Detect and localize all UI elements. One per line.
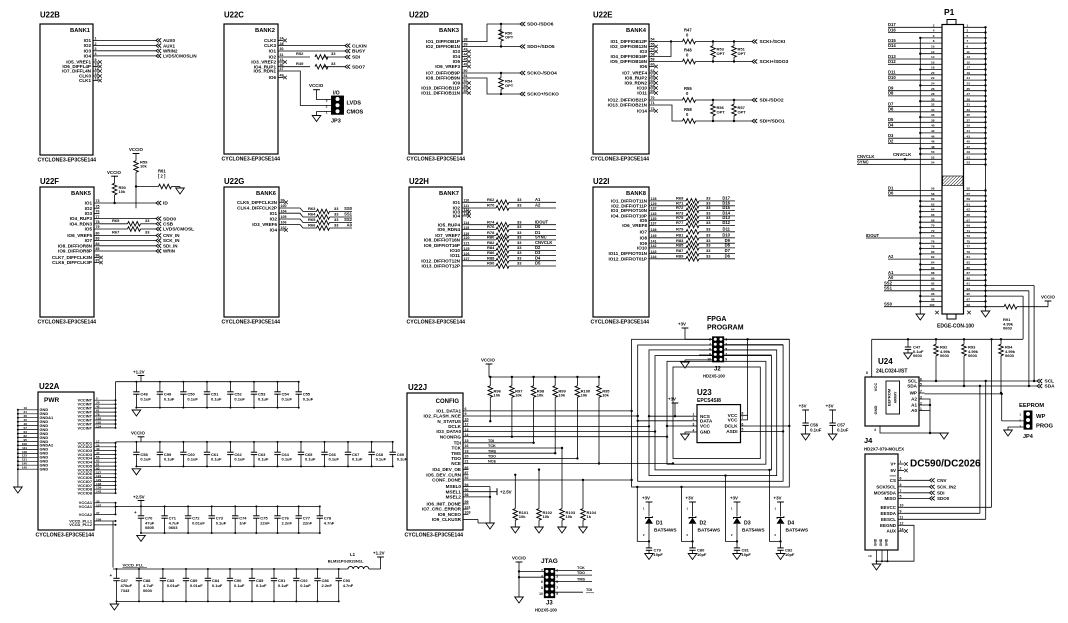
svg-text:R85: R85	[676, 243, 684, 248]
wire rail down to U24 VCC pin	[871, 339, 873, 377]
svg-text:77: 77	[96, 215, 100, 219]
svg-text:CLK3: CLK3	[264, 43, 276, 48]
svg-text:5: 5	[900, 495, 902, 499]
svg-text:0.1uF: 0.1uF	[211, 457, 222, 462]
svg-text:19: 19	[967, 71, 971, 75]
svg-text:66: 66	[931, 213, 935, 217]
U22A pin GND 108	[18, 444, 38, 446]
resistor R51 OPT	[733, 42, 735, 46]
svg-text:U22B: U22B	[40, 11, 60, 20]
svg-text:SDO0: SDO0	[937, 496, 950, 501]
P1 left ground bus	[919, 38, 921, 313]
svg-text:57: 57	[967, 192, 971, 196]
capacitor C54 0.1uF	[277, 382, 279, 392]
svg-text:ARRAY: ARRAY	[894, 391, 898, 403]
svg-text:99: 99	[281, 199, 285, 203]
svg-text:7: 7	[556, 586, 558, 590]
svg-text:A2: A2	[888, 254, 894, 259]
svg-text:R62: R62	[487, 197, 495, 202]
svg-text:[ 2 ]: [ 2 ]	[158, 174, 166, 179]
svg-text:43: 43	[464, 48, 468, 52]
svg-text:7: 7	[900, 489, 902, 493]
svg-text:18: 18	[465, 449, 469, 453]
svg-text:4: 4	[541, 574, 543, 578]
U24 GND pin 4	[879, 426, 881, 431]
svg-text:SCK/SCL: SCK/SCL	[876, 484, 896, 489]
svg-text:134: 134	[96, 424, 101, 428]
svg-text:33: 33	[334, 223, 339, 228]
svg-text:A0: A0	[347, 223, 353, 228]
resistor R104 1k	[582, 480, 584, 509]
svg-text:SS1: SS1	[344, 212, 353, 217]
svg-text:60: 60	[651, 63, 655, 67]
svg-text:0.1uF: 0.1uF	[300, 583, 311, 588]
wire U22D SCKO+/SCKO	[468, 78, 521, 94]
svg-text:10: 10	[539, 592, 543, 596]
P1 pin row 12 (pins 24/23)	[920, 84, 942, 86]
svg-text:127: 127	[464, 257, 470, 261]
svg-text:IO10: IO10	[637, 246, 647, 251]
svg-text:24: 24	[280, 37, 284, 41]
svg-text:LVDS/CMOSLIN: LVDS/CMOSLIN	[163, 54, 197, 59]
ground R104	[579, 527, 588, 533]
svg-text:99: 99	[465, 500, 469, 504]
wire P1 VCC riser	[986, 295, 1024, 297]
svg-text:PWR: PWR	[44, 397, 59, 404]
svg-text:24LC024-I/ST: 24LC024-I/ST	[876, 369, 907, 375]
capacitor C85 0.1uF	[251, 569, 253, 578]
svg-text:D5: D5	[888, 117, 894, 122]
svg-text:CNVCLK: CNVCLK	[893, 152, 912, 157]
resistor R66 33 to A0	[285, 225, 317, 229]
capacitor C87 470uF	[116, 569, 118, 578]
svg-text:CLK1: CLK1	[79, 78, 91, 83]
svg-text:OPT: OPT	[717, 51, 726, 56]
svg-text:10pF: 10pF	[742, 552, 752, 557]
svg-text:84: 84	[931, 261, 935, 265]
svg-text:55: 55	[967, 187, 971, 191]
U22A pin GND 45	[18, 421, 38, 423]
svg-text:10: 10	[707, 357, 711, 361]
P1 pin row 3 (pins 6/5)	[920, 37, 942, 39]
svg-text:52: 52	[464, 79, 468, 83]
svg-text:64: 64	[931, 208, 935, 212]
ground JP4	[1004, 430, 1013, 436]
svg-text:SDO-/SDO6: SDO-/SDO6	[527, 22, 554, 28]
P1 pin row 10 (pins 20/19)	[888, 74, 942, 76]
net ID	[156, 201, 161, 205]
ground J2	[685, 359, 713, 361]
wire SDA drop to EESDA	[979, 386, 981, 513]
svg-text:87: 87	[967, 271, 971, 275]
svg-text:IO6_VREF8: IO6_VREF8	[622, 223, 647, 228]
svg-text:R64: R64	[308, 212, 316, 217]
U22A pin GND 63	[18, 433, 38, 435]
svg-text:87: 87	[465, 471, 469, 475]
svg-text:OPT: OPT	[717, 109, 726, 114]
resistor R63 33 to SS0	[285, 208, 317, 212]
P1 pin row 6 (pins 12/11)	[920, 53, 942, 55]
capacitor C53 0.1uF	[253, 382, 255, 392]
svg-text:31: 31	[967, 103, 971, 107]
resistor R64 33 to SS1	[285, 213, 317, 217]
ground U22A left	[14, 487, 23, 493]
P1 pin row 21 (pins 42/41)	[920, 132, 942, 134]
svg-text:4: 4	[95, 52, 97, 56]
svg-text:31: 31	[280, 53, 284, 57]
svg-text:90: 90	[931, 276, 935, 280]
svg-text:+3V: +3V	[774, 496, 782, 501]
svg-text:63: 63	[651, 69, 655, 73]
wire JP4 pin3 ground	[1008, 427, 1024, 430]
wire U22C CLKIN	[284, 45, 346, 47]
capacitor C92 0.1uF	[295, 569, 297, 578]
svg-text:1: 1	[326, 111, 328, 115]
svg-text:TDI: TDI	[586, 588, 592, 592]
svg-text:5: 5	[556, 580, 558, 584]
wire SS0 row to R91	[986, 306, 1005, 308]
svg-text:121: 121	[464, 242, 470, 246]
svg-text:0.1uF: 0.1uF	[211, 396, 222, 401]
wire WP to JP4 pin2	[925, 393, 1002, 395]
resistor R103 10k	[561, 448, 563, 509]
P1 pin row 19 (pins 38/37)	[888, 121, 942, 123]
svg-text:51: 51	[967, 155, 971, 159]
svg-text:JTAG: JTAG	[541, 558, 558, 565]
P1 pin row 41 (pins 82/81)	[888, 258, 942, 260]
svg-text:129: 129	[651, 202, 657, 206]
svg-text:D7: D7	[888, 101, 894, 106]
P1 pin row 25 (pins 50/49)	[920, 153, 942, 155]
svg-text:3: 3	[95, 47, 97, 51]
net CNV	[930, 478, 935, 482]
wire VCCIO to J3 pins	[518, 562, 520, 597]
capacitor C59 0.1uF	[159, 442, 161, 452]
P1 pin row 45 (pins 90/89)	[888, 279, 942, 281]
svg-text:SCK_IN: SCK_IN	[163, 238, 180, 243]
svg-text:DCLK: DCLK	[724, 424, 738, 429]
svg-text:30: 30	[280, 47, 284, 51]
capacitor C58 0.1uF	[135, 442, 137, 452]
U22A pin GND 21	[18, 413, 38, 415]
wire +1.2V rail	[116, 381, 299, 383]
svg-text:D17: D17	[888, 22, 896, 27]
U24 EEPROM ARRAY box	[886, 381, 900, 414]
svg-text:10k: 10k	[543, 514, 550, 519]
svg-text:45: 45	[967, 140, 971, 144]
capacitor C63 0.1uF	[253, 442, 255, 452]
net SCKI+/SDO3	[752, 60, 757, 64]
svg-text:11: 11	[900, 516, 904, 520]
svg-text:0.1uF: 0.1uF	[282, 396, 293, 401]
svg-text:BANK4: BANK4	[626, 28, 647, 34]
resistor R65 33 CSB	[100, 223, 128, 225]
svg-text:VCCIO: VCCIO	[131, 431, 145, 436]
wire U22F ID	[100, 202, 157, 204]
resistor R100 10k	[576, 377, 578, 386]
svg-text:7343: 7343	[121, 588, 131, 593]
svg-text:CYCLONE3-EP3C5E144: CYCLONE3-EP3C5E144	[407, 156, 466, 162]
ground MSEL	[486, 523, 495, 529]
svg-text:IDOUT: IDOUT	[866, 233, 879, 238]
wire U22C SDO7	[284, 66, 311, 68]
svg-text:CNV: CNV	[937, 478, 947, 483]
svg-text:10k: 10k	[140, 164, 147, 169]
svg-text:SDI-/SDO2: SDI-/SDO2	[760, 98, 784, 104]
svg-text:CMOS: CMOS	[347, 110, 364, 116]
capacitor C70 47uF	[140, 506, 142, 515]
svg-text:R49: R49	[296, 61, 304, 66]
svg-text:80: 80	[96, 232, 100, 236]
svg-text:9: 9	[465, 412, 467, 416]
svg-text:AUX: AUX	[886, 529, 896, 534]
svg-text:84: 84	[96, 242, 100, 246]
capacitor C51 0.1uF	[206, 382, 208, 392]
wire U22D SCKO-/SDO4	[468, 72, 521, 74]
wire J4 CNV	[904, 479, 930, 481]
svg-text:10pF: 10pF	[697, 552, 707, 557]
svg-text:37: 37	[967, 118, 971, 122]
capacitor C77 22nF	[298, 506, 300, 515]
svg-text:1: 1	[95, 37, 97, 41]
P1 hatch band	[943, 176, 963, 186]
svg-text:D2: D2	[888, 138, 894, 143]
P1 pin row 34 (pins 68/67)	[920, 221, 942, 223]
svg-text:U22G: U22G	[224, 177, 244, 186]
svg-text:12: 12	[95, 72, 99, 76]
svg-text:139: 139	[651, 234, 657, 238]
wire VCCINT bus	[115, 382, 117, 428]
svg-text:CONF_DONE: CONF_DONE	[432, 478, 461, 483]
svg-text:10k: 10k	[494, 393, 501, 398]
svg-text:8: 8	[933, 39, 935, 43]
svg-text:23: 23	[967, 82, 971, 86]
svg-text:33: 33	[517, 197, 522, 202]
svg-text:10k: 10k	[537, 393, 544, 398]
P1 pin row 16 (pins 32/31)	[888, 106, 942, 108]
svg-text:VCCIO: VCCIO	[309, 83, 324, 88]
resistor R61 [2]	[136, 186, 159, 188]
svg-text:68: 68	[931, 218, 935, 222]
wire U22E SCKI- line	[655, 41, 683, 43]
svg-text:91: 91	[967, 282, 971, 286]
U22A pin GND 19	[18, 409, 38, 411]
capacitor C91 0.1uF	[273, 569, 275, 578]
P1 pin row 24 (pins 48/47)	[920, 148, 942, 150]
svg-text:0.1uF: 0.1uF	[837, 428, 849, 433]
ground C47	[904, 353, 913, 359]
P1 pin row 14 (pins 28/27)	[888, 95, 942, 97]
svg-text:R65: R65	[112, 218, 120, 223]
net SCL	[1037, 379, 1042, 383]
diode D2 BAT54WS	[692, 502, 694, 517]
P1 pin row 42 (pins 84/83)	[920, 263, 942, 265]
svg-text:NCONFIG: NCONFIG	[440, 434, 462, 439]
ground J3	[515, 597, 524, 603]
svg-text:IO13_DIFFIOT12P: IO13_DIFFIOT12P	[421, 264, 460, 269]
svg-text:IO6_VREF3: IO6_VREF3	[435, 64, 460, 69]
svg-text:43: 43	[967, 134, 971, 138]
svg-text:30: 30	[931, 97, 935, 101]
svg-text:OPT: OPT	[505, 35, 514, 40]
resistor R74 33 to IDOUT	[468, 224, 497, 226]
wire routing loop 2	[638, 345, 783, 481]
capacitor C49 0.1uF	[159, 382, 161, 392]
capacitor C75 22nF	[255, 506, 257, 515]
svg-text:25: 25	[967, 87, 971, 91]
wire routing loop 3	[649, 350, 777, 476]
svg-text:1: 1	[693, 413, 695, 417]
wire U22J feeder y480	[469, 479, 632, 481]
wire U22J feeder y437	[469, 436, 668, 438]
net BUSY	[345, 49, 350, 53]
svg-text:A1: A1	[535, 197, 541, 202]
svg-text:SYNC: SYNC	[535, 235, 547, 240]
wire VCCD_PLL bus	[112, 521, 114, 568]
capacitor C88 4.7uF	[138, 569, 140, 578]
svg-text:33: 33	[517, 255, 522, 260]
svg-text:40: 40	[931, 124, 935, 128]
svg-text:0.01uF: 0.01uF	[192, 520, 205, 525]
capacitor C61 0.1uF	[206, 442, 208, 452]
U22A pin GND 145	[18, 468, 38, 470]
P1 pin row 4 (pins 8/7)	[888, 42, 942, 44]
svg-text:DC590/DC2026: DC590/DC2026	[910, 459, 981, 470]
svg-text:0805: 0805	[145, 525, 155, 530]
svg-text:10: 10	[465, 417, 469, 421]
svg-text:60: 60	[931, 197, 935, 201]
wire J3 TMS	[555, 581, 592, 583]
svg-text:73: 73	[96, 199, 100, 203]
svg-text:81: 81	[967, 255, 971, 259]
svg-text:54: 54	[931, 161, 935, 165]
svg-text:76: 76	[931, 239, 935, 243]
svg-text:R88: R88	[487, 255, 495, 260]
svg-text:OPT: OPT	[738, 51, 747, 56]
svg-text:SDA: SDA	[907, 384, 917, 389]
svg-text:3: 3	[725, 342, 727, 346]
svg-text:75: 75	[96, 204, 100, 208]
svg-text:4.7nF: 4.7nF	[324, 520, 335, 525]
wire U23 DCLK to loop	[746, 425, 789, 427]
svg-text:+3V: +3V	[642, 496, 650, 501]
svg-text:10k: 10k	[119, 189, 126, 194]
svg-text:3: 3	[693, 422, 695, 426]
svg-text:12: 12	[900, 522, 904, 526]
svg-text:ASDI: ASDI	[726, 429, 737, 434]
svg-text:100: 100	[929, 303, 934, 307]
svg-text:IO5_RDN1: IO5_RDN1	[254, 69, 277, 74]
svg-text:62: 62	[931, 202, 935, 206]
svg-text:96: 96	[931, 292, 935, 296]
svg-text:EDGE-CON-100: EDGE-CON-100	[937, 324, 974, 330]
svg-text:2: 2	[920, 401, 922, 405]
wire VCCIO rail	[116, 441, 393, 443]
diode D3 BAT54WS	[736, 502, 738, 517]
svg-text:SS2: SS2	[884, 280, 893, 285]
resistor R50 10k	[114, 176, 116, 183]
ground R101	[511, 527, 520, 533]
svg-text:BANK5: BANK5	[71, 191, 92, 197]
resistor R67 33 LVDS/CMOSL	[100, 228, 128, 230]
ground cap bank4	[116, 601, 118, 604]
svg-text:33: 33	[517, 203, 522, 208]
svg-text:FPGA: FPGA	[707, 316, 726, 323]
svg-text:125: 125	[464, 247, 470, 251]
svg-text:65: 65	[967, 213, 971, 217]
capacitor C78 4.7nF	[319, 506, 321, 515]
wire VCCIO to JP3	[317, 90, 333, 100]
svg-text:103: 103	[465, 511, 471, 515]
svg-text:IO2: IO2	[270, 217, 278, 222]
svg-text:10: 10	[931, 45, 935, 49]
resistor R90 33 to D5	[468, 265, 497, 267]
svg-text:88: 88	[931, 271, 935, 275]
svg-text:BANK2: BANK2	[255, 28, 275, 34]
svg-text:CLKIN: CLKIN	[352, 43, 367, 49]
capacitor C80 10pF	[689, 547, 695, 549]
svg-text:75: 75	[967, 239, 971, 243]
wire D1 tap to loop	[637, 487, 649, 541]
svg-text:8: 8	[541, 586, 543, 590]
svg-text:SDO0: SDO0	[163, 216, 176, 222]
P1 pin row 23 (pins 46/45)	[888, 143, 942, 145]
svg-text:BANK3: BANK3	[439, 28, 460, 34]
resistor R98 10k	[533, 377, 535, 386]
svg-text:R80: R80	[487, 235, 495, 240]
resistor R83 33 to D9	[655, 242, 687, 244]
U22A pin GND 82	[18, 437, 38, 439]
svg-text:BUSY: BUSY	[352, 49, 366, 55]
svg-text:D6: D6	[725, 253, 731, 258]
resistor R53 OPT	[712, 42, 714, 46]
ground U24	[940, 433, 949, 439]
svg-text:BAT54WS: BAT54WS	[654, 528, 677, 534]
wire U22B LVDS/CMOSLIN	[99, 55, 157, 57]
svg-text:86: 86	[96, 254, 100, 258]
wire U22J feeder y426	[469, 425, 650, 427]
svg-text:PROGRAM: PROGRAM	[707, 325, 744, 332]
svg-text:EESCL: EESCL	[881, 517, 896, 522]
svg-text:41: 41	[967, 129, 971, 133]
svg-text:+3V: +3V	[678, 322, 686, 327]
wire +3V to J2	[684, 328, 686, 339]
P1 pin row 37 (pins 74/73)	[866, 237, 942, 239]
svg-text:96: 96	[465, 488, 469, 492]
svg-text:63: 63	[967, 208, 971, 212]
svg-text:33: 33	[334, 217, 339, 222]
capacitor C66 0.1uF	[324, 442, 326, 452]
svg-text:0.1uF: 0.1uF	[397, 457, 408, 462]
svg-text:47: 47	[280, 67, 284, 71]
ground C81	[733, 554, 742, 560]
wire MSEL0/MSEL2 to ground	[469, 486, 491, 488]
svg-text:A2: A2	[911, 397, 917, 402]
svg-text:CYCLONE3-EP3C5E144: CYCLONE3-EP3C5E144	[405, 533, 464, 539]
net WRIN	[100, 250, 157, 252]
svg-text:CYCLONE3-EP3C5E144: CYCLONE3-EP3C5E144	[38, 319, 97, 325]
resistor R101 10k	[514, 475, 516, 509]
net LVDS/CMOSL	[156, 227, 161, 231]
svg-text:1nF: 1nF	[239, 520, 247, 525]
svg-text:61: 61	[967, 202, 971, 206]
svg-text:14: 14	[900, 527, 904, 531]
J4 CS overline	[890, 475, 897, 477]
svg-text:V+: V+	[890, 462, 896, 467]
wire TDI row	[469, 442, 534, 444]
svg-text:GND: GND	[873, 405, 878, 414]
wire VCC rail drop to EEVCC	[991, 339, 993, 507]
